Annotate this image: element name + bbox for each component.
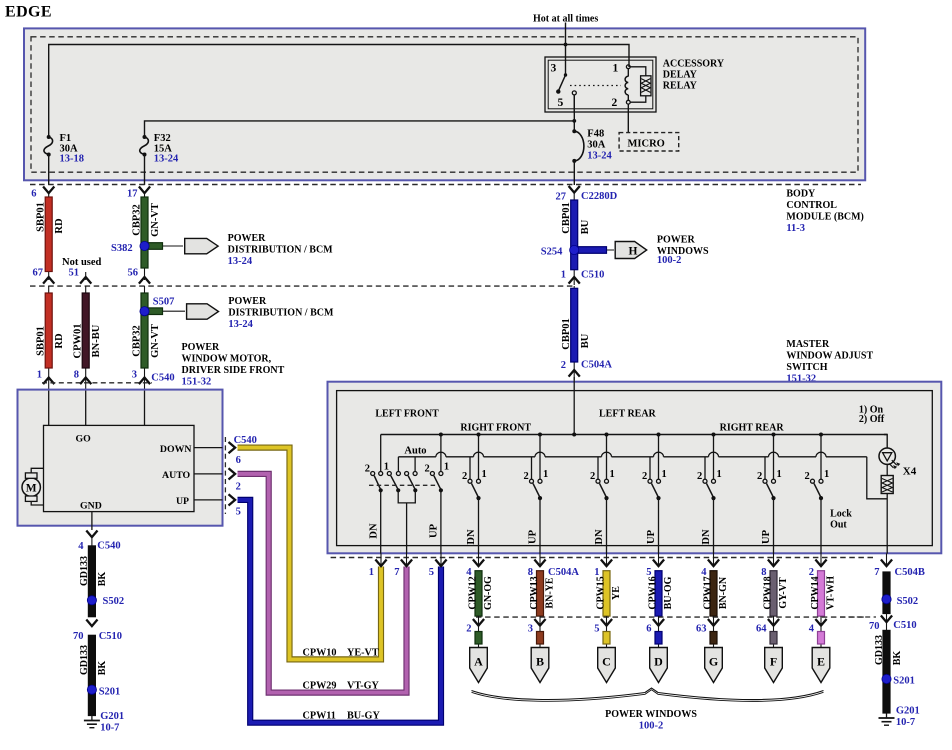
svg-text:27: 27 [556,192,567,203]
wire CPW29 VT-GY violet [238,474,407,693]
svg-text:11-3: 11-3 [786,223,805,234]
svg-text:2) Off: 2) Off [859,414,885,425]
right front DN switch arm [472,483,479,497]
bus2 drop to auto contact right [414,457,416,472]
svg-text:UP: UP [528,529,539,544]
svg-text:DN: DN [594,529,605,545]
connector pin 3 to B [539,616,541,648]
svg-text:1: 1 [610,469,615,480]
relay coil [627,69,629,77]
svg-text:CPW11: CPW11 [303,711,336,722]
svg-text:3: 3 [132,370,137,381]
right rear UP switch arm [767,483,774,497]
left rear DN switch output wire [606,498,608,553]
svg-text:F48: F48 [587,129,604,140]
wire CBP01 BU lower segment [573,286,575,380]
wire pin1 into motor [48,391,50,426]
wire CPW10 YE-VT yellow [238,448,382,660]
svg-text:YE: YE [611,586,622,600]
svg-text:MICRO: MICRO [628,139,665,150]
svg-text:C2280D: C2280D [581,191,618,202]
svg-text:GD133: GD133 [79,645,90,675]
power window motor box [18,390,223,526]
motor AUTO chevron pin 2 [229,468,236,479]
svg-text:LEFT REAR: LEFT REAR [599,409,657,420]
svg-text:2: 2 [697,471,702,482]
motor pin UP line [194,499,223,501]
svg-text:B: B [536,655,544,669]
svg-text:C540: C540 [97,540,120,551]
wire top bus from F1 to relay pin 1 [49,45,629,138]
svg-text:C504A: C504A [548,567,579,578]
svg-text:56: 56 [128,268,139,279]
svg-text:3: 3 [551,63,557,75]
svg-text:POWER: POWER [228,233,267,244]
right front DN switch contacts [468,479,472,483]
svg-text:5: 5 [429,567,434,578]
wire relay pin5 to junction to F48 [573,95,575,131]
svg-text:GN-OG: GN-OG [483,576,494,610]
bus1 feed junction [572,433,576,437]
svg-text:2: 2 [642,471,647,482]
svg-text:GD133: GD133 [874,635,885,665]
motor symbol M [22,478,40,496]
motor GND wire out [91,512,93,530]
motor pin DOWN line [194,447,223,449]
svg-text:2: 2 [561,360,566,371]
wire below F1 to BCM edge [48,155,50,186]
right front UP switch contacts [530,479,534,483]
svg-text:S502: S502 [897,596,919,607]
right front DN switch feed from bus2 [469,457,471,479]
connector arrow D [650,648,668,683]
lock out switch feed from bus1 [820,435,822,480]
motor pin AUTO line [194,473,223,475]
svg-text:POWER: POWER [228,296,267,307]
svg-text:Auto: Auto [404,446,426,457]
svg-text:F32: F32 [154,133,171,144]
svg-text:UP: UP [176,496,189,507]
left chain C510 crossing [86,620,97,627]
svg-text:C510: C510 [581,269,604,280]
wire F32 bus to relay pin 5 node [145,121,575,137]
svg-text:2: 2 [757,471,762,482]
fuse F32 15A 13-24 [140,137,149,155]
svg-text:C: C [602,655,611,669]
connector arrow C [598,648,616,683]
connector pin 2 at x821 switch output [820,554,822,567]
svg-text:DISTRIBUTION / BCM: DISTRIBUTION / BCM [228,308,334,319]
junction F32 bus / relay pin5 / F48 [572,119,576,123]
wire CPW12 GN-OG [475,571,482,616]
connector arrow G [705,648,723,683]
right rear UP switch output wire [773,498,775,553]
svg-text:CPW01: CPW01 [73,324,84,359]
right rear DN switch output wire [713,498,715,553]
connector pin 1 at x381 switch output [380,554,382,567]
wire CPW16 BU-OG [655,571,662,616]
wire hot feed vertical [565,23,567,76]
svg-text:UP: UP [761,529,772,544]
svg-text:UP: UP [646,529,657,544]
svg-text:WINDOW ADJUST: WINDOW ADJUST [786,351,873,362]
svg-text:BU-OG: BU-OG [663,576,674,609]
svg-text:RD: RD [54,218,65,234]
switch bottom connector dashed line [331,557,876,559]
svg-text:SBP01: SBP01 [36,202,47,232]
svg-text:GND: GND [80,500,102,511]
left front auto switch [387,472,391,476]
svg-text:CBP32: CBP32 [131,325,142,357]
lamp ballast resistor [881,476,893,494]
left rear UP switch contacts [648,479,652,483]
svg-text:1: 1 [717,469,722,480]
svg-text:1: 1 [369,567,374,578]
connector pin 2 to A [478,616,480,648]
connector arrow F [765,648,783,683]
svg-text:6: 6 [236,455,241,466]
second connector dashed line [476,616,866,618]
connector pin 64 to F [773,616,775,648]
wire CPW01 BN-BU not used segment [85,286,87,390]
right rear UP switch feed from bus1 [773,435,775,480]
wire CBP32 GN-VT upper segment [144,193,146,280]
connector pin 8 at x773 switch output [773,554,775,567]
svg-text:13-24: 13-24 [228,256,253,267]
svg-text:1: 1 [543,469,548,480]
left rear UP switch output wire [658,498,660,553]
svg-text:51: 51 [69,268,80,279]
svg-text:POWER: POWER [182,342,221,353]
svg-text:5: 5 [236,506,241,517]
svg-text:S201: S201 [99,687,121,698]
svg-text:70: 70 [869,621,880,632]
svg-text:DOWN: DOWN [160,444,192,455]
svg-text:C510: C510 [893,620,916,631]
motor UP chevron pin 5 [229,494,236,505]
svg-text:CBP32: CBP32 [131,204,142,236]
C540 dashed connector at motor right [224,437,226,514]
right chain C510 crossing [886,614,888,633]
svg-text:BK: BK [97,661,108,676]
pointer power distribution S382 [185,238,218,253]
motor DOWN chevron pin 6 [229,442,236,453]
svg-text:10-7: 10-7 [100,723,119,734]
svg-text:BN-BU: BN-BU [91,324,102,357]
left front coupling dashed line [369,484,437,486]
wire CPW17 BN-GN [710,571,717,616]
svg-text:2: 2 [612,97,618,109]
C510 dashed connector line left [30,285,574,287]
motor inner box [44,425,195,511]
svg-text:CPW15: CPW15 [596,576,607,609]
wire below F48 to BCM edge [573,161,575,185]
svg-text:7: 7 [874,567,879,578]
svg-text:100-2: 100-2 [657,255,682,266]
left rear DN switch arm [600,483,607,497]
svg-text:H: H [629,246,638,258]
right front UP switch feed from bus1 [539,435,541,480]
fuse F48 30A 13-24 [574,131,584,161]
connector pin 63 to G [713,616,715,648]
relay switch contact to pin 5 [572,91,576,95]
svg-text:Not used: Not used [62,257,102,268]
svg-text:DISTRIBUTION / BCM: DISTRIBUTION / BCM [228,245,334,256]
svg-text:4: 4 [78,541,84,552]
brace power windows [472,688,824,699]
svg-text:C504B: C504B [895,567,925,578]
svg-text:SBP01: SBP01 [36,326,47,356]
svg-text:DN: DN [701,529,712,545]
wire C504B black upper [883,572,890,614]
svg-text:YE-VT: YE-VT [347,647,379,658]
connector pin 5 to C [606,616,608,648]
svg-text:BK: BK [892,651,903,666]
relay inner box [548,60,653,109]
svg-text:Out: Out [830,520,847,531]
svg-text:1: 1 [777,469,782,480]
right rear UP switch feed from bus2 [764,457,766,479]
svg-text:VT-GY: VT-GY [347,681,380,692]
svg-text:1: 1 [824,469,829,480]
svg-text:1: 1 [662,469,667,480]
svg-text:13-18: 13-18 [60,154,85,165]
svg-text:C540: C540 [234,435,257,446]
left rear DN switch feed from bus1 [606,435,608,480]
wire SBP01 RD lower segment [48,286,50,390]
connector pin 7 at x406 switch output [406,554,408,567]
wire SBP01 RD upper segment [48,193,50,280]
svg-text:X4: X4 [903,466,917,478]
svg-text:EDGE: EDGE [5,4,52,21]
svg-text:S254: S254 [541,247,563,258]
wire relay pin 2 to micro [627,104,629,133]
svg-text:MASTER: MASTER [786,339,830,350]
svg-text:RELAY: RELAY [663,81,698,92]
connector pin 4 at x478 switch output [478,554,480,567]
svg-text:BU-GY: BU-GY [347,711,380,722]
svg-text:GD133: GD133 [79,556,90,586]
branch wire to power distribution S382 [145,245,184,247]
right front UP switch arm [533,483,540,497]
lamp to resistor wire [886,464,888,475]
svg-text:2: 2 [590,471,595,482]
svg-text:F: F [770,655,777,669]
wire CBP32 GN-VT lower segment [144,286,146,390]
left front DN switch [380,435,382,472]
svg-text:13-24: 13-24 [587,151,612,162]
svg-text:2: 2 [466,624,471,635]
BCM inner dashed border [31,37,858,172]
wire CPW18 GY-VT [770,571,777,616]
right front DN switch feed from bus1 [478,435,480,480]
svg-text:CPW17: CPW17 [703,576,714,609]
svg-text:BK: BK [97,572,108,587]
right rear DN switch arm [707,483,714,497]
illumination lamp X4 [879,448,895,464]
C540 dashed connector line at motor [42,382,152,384]
svg-text:100-2: 100-2 [639,721,664,732]
svg-text:SWITCH: SWITCH [786,362,827,373]
svg-text:WINDOW MOTOR,: WINDOW MOTOR, [182,354,272,365]
wire pin8 into motor [85,391,87,426]
svg-text:4: 4 [809,624,815,635]
master switch inner box [337,391,933,546]
connector pin 5 at x658 switch output [658,554,660,567]
left rear UP switch feed from bus1 [658,435,660,480]
svg-text:GN-VT: GN-VT [150,324,161,358]
ground G201 right [886,713,888,718]
wire below F32 to BCM edge [144,155,146,186]
junction hot feed / F1 bus [564,43,568,47]
svg-text:64: 64 [756,624,767,635]
svg-text:CONTROL: CONTROL [786,200,837,211]
lock out switch arm [814,483,821,497]
right rear DN switch feed from bus1 [713,435,715,480]
svg-text:S382: S382 [111,243,133,254]
right front DN switch output wire [478,498,480,553]
svg-text:G: G [709,655,718,669]
wire CPW15 YE [603,571,610,616]
right rear DN switch feed from bus2 [704,457,706,479]
svg-text:8: 8 [74,370,79,381]
svg-text:RIGHT FRONT: RIGHT FRONT [460,423,531,434]
svg-text:BN-GN: BN-GN [718,576,729,609]
svg-text:D: D [654,655,663,669]
svg-text:1: 1 [613,63,619,75]
svg-text:2: 2 [365,464,370,475]
svg-text:63: 63 [696,624,707,635]
svg-text:M: M [26,483,37,495]
svg-text:DN: DN [369,523,380,539]
BCM bottom connector dashed line [30,184,861,186]
svg-text:2: 2 [424,464,429,475]
svg-text:CPW29: CPW29 [303,681,337,692]
svg-text:E: E [817,655,825,669]
svg-text:5: 5 [558,97,564,109]
svg-text:CPW16: CPW16 [648,576,659,609]
svg-text:BU: BU [580,333,591,348]
svg-text:LEFT FRONT: LEFT FRONT [375,409,439,420]
connector pin 4 to E [820,616,822,648]
connector pin 4 at x713 switch output [713,554,715,567]
fuse F1 30A 13-18 [44,137,53,155]
svg-text:BODY: BODY [786,189,816,200]
svg-text:2: 2 [805,471,810,482]
connector arrow B [531,648,549,683]
svg-text:S201: S201 [893,676,915,687]
branch wire to power distribution S507 [145,310,186,312]
svg-text:AUTO: AUTO [162,470,191,481]
svg-text:30A: 30A [587,140,606,151]
wire GD133 BK right segment 2 [883,630,890,713]
svg-text:151-32: 151-32 [182,377,212,388]
right front UP switch feed from bus2 [531,457,533,479]
wire CBP01 BU upper segment [573,192,575,285]
svg-text:2: 2 [462,471,467,482]
svg-text:13-24: 13-24 [154,154,179,165]
wire CPW11 BU-GY blue [238,500,442,723]
right rear UP switch contacts [763,479,767,483]
connector pin 27 C2280D out of BCM [569,186,580,193]
connector arrow E [812,648,830,683]
svg-text:CPW12: CPW12 [468,576,479,609]
lock out switch contacts [811,479,815,483]
svg-text:G201: G201 [896,706,920,717]
svg-text:G201: G201 [100,711,124,722]
svg-text:C510: C510 [99,631,122,642]
right rear DN switch contacts [703,479,707,483]
relay actuation dotted link [570,85,621,87]
svg-text:10-7: 10-7 [896,717,915,728]
branch wire to power windows H [574,249,614,251]
connector pin 6 to D [658,616,660,648]
wire CPW13 BN-YE [537,571,544,616]
left rear UP switch arm [652,483,659,497]
bus1 right end to lamp [884,435,887,449]
svg-text:S502: S502 [103,596,125,607]
svg-text:CBP01: CBP01 [561,202,572,234]
svg-text:GO: GO [76,434,92,445]
svg-text:6: 6 [31,189,36,200]
svg-text:C504A: C504A [581,360,612,371]
svg-text:67: 67 [33,268,44,279]
svg-text:ACCESSORY: ACCESSORY [663,59,725,70]
relay switch arm pivot [564,73,567,76]
svg-text:RD: RD [54,333,65,349]
svg-text:POWER: POWER [657,235,696,246]
pointer H power windows [615,242,647,259]
svg-text:1: 1 [37,370,42,381]
wire GD133 BK left segment 2 [88,635,95,715]
svg-text:UP: UP [429,523,440,538]
right front UP switch output wire [539,498,541,553]
svg-text:7: 7 [394,567,399,578]
svg-text:1: 1 [482,469,487,480]
svg-text:CPW10: CPW10 [303,647,337,658]
connector pin 1 at x606 switch output [606,554,608,567]
svg-text:DN: DN [466,529,477,545]
bus2 left end drop to auto contact [397,457,399,472]
svg-text:DELAY: DELAY [663,70,698,81]
svg-text:BU: BU [580,219,591,234]
wire pin3 into motor [144,391,146,426]
wire GD133 BK left segment 1 [91,536,93,548]
svg-text:1: 1 [444,462,449,473]
svg-text:F1: F1 [60,133,72,144]
svg-text:CBP01: CBP01 [561,318,572,350]
connector pin 6 out of BCM [43,187,54,194]
svg-text:13-24: 13-24 [228,319,253,330]
micro dashed box [619,133,679,151]
svg-text:CPW13: CPW13 [529,576,540,609]
svg-text:CPW18: CPW18 [763,576,774,609]
pointer power distribution S507 [187,304,219,319]
bus2 right end to resistor bottom [867,457,887,499]
svg-text:5: 5 [594,624,599,635]
svg-text:BN-YE: BN-YE [544,577,555,608]
ground G201 left [91,716,93,721]
svg-text:3: 3 [528,624,533,635]
connector pin 5 at x441 switch output [440,554,442,567]
switch bus 2 auto bus [398,456,436,458]
svg-text:2: 2 [524,471,529,482]
lock out switch output wire [820,498,822,553]
left rear DN switch contacts [596,479,600,483]
svg-text:CPW14: CPW14 [810,576,821,609]
left front UP switch [440,435,442,472]
wire CPW14 VT-WH [818,571,825,616]
